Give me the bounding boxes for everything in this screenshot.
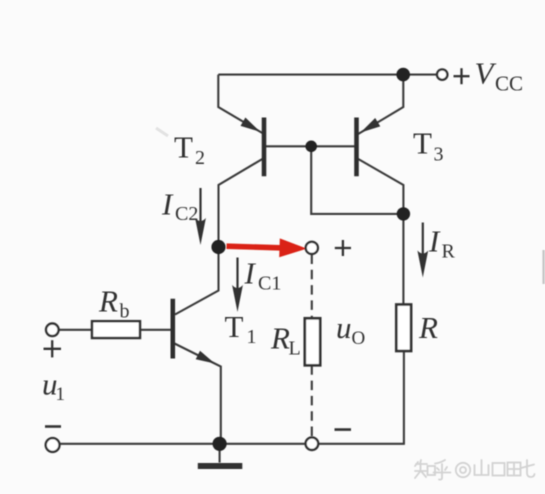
svg-text:2: 2 [195, 147, 205, 169]
svg-text:u: u [336, 310, 352, 345]
svg-text:I: I [428, 224, 441, 259]
svg-text:T: T [174, 130, 193, 165]
svg-text:b: b [120, 301, 130, 323]
svg-text:I: I [161, 187, 174, 222]
svg-text:R: R [418, 310, 438, 345]
svg-text:C1: C1 [258, 273, 281, 295]
svg-text:R: R [98, 284, 118, 319]
svg-text:R: R [442, 241, 456, 263]
svg-text:T: T [413, 126, 432, 161]
svg-text:L: L [289, 338, 301, 360]
svg-text:CC: CC [495, 72, 523, 96]
svg-text:I: I [244, 256, 257, 291]
svg-text:T: T [225, 309, 244, 344]
svg-text:V: V [475, 56, 497, 91]
svg-text:C2: C2 [175, 203, 198, 225]
svg-text:1: 1 [247, 326, 257, 348]
svg-text:1: 1 [56, 384, 66, 405]
svg-text:O: O [352, 328, 366, 349]
svg-text:3: 3 [434, 144, 444, 166]
svg-text:R: R [270, 321, 290, 356]
